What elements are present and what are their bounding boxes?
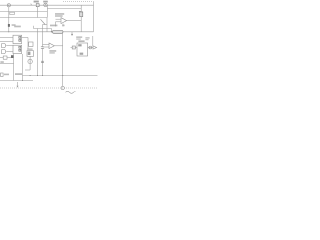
wire x22.5 vertical [22, 54, 24, 81]
op-amp U2 [49, 43, 54, 49]
current source CS1 [28, 59, 32, 63]
wire x28 vertical [27, 38, 29, 50]
label left mid text [14, 26, 21, 28]
comp on left pin [72, 46, 75, 49]
label small left [0, 61, 3, 63]
fuse F1 [36, 4, 39, 7]
wire K1 left [0, 57, 3, 59]
gate G1 [2, 44, 6, 48]
junction rail dots [30, 75, 31, 76]
wire upper mid rail corner [33, 26, 35, 29]
wire mid rail right [47, 8, 81, 10]
box IC1 [13, 35, 22, 43]
dashed bottom line [0, 87, 98, 89]
capacitor C1 plates [41, 46, 44, 48]
wire stub y47 [43, 46, 50, 48]
transistor Q1 diagonal [41, 19, 46, 24]
label above x93 [85, 37, 89, 38]
label below U1 [62, 25, 64, 27]
wire L1 down [62, 33, 64, 86]
wire drop to junction [51, 29, 53, 32]
bottom rail 2 [0, 80, 33, 82]
box B4 [27, 51, 33, 57]
label M1 [43, 1, 48, 3]
source circle V1 [7, 4, 10, 7]
label B4 [27, 48, 32, 50]
IC1 pin square b [19, 39, 21, 41]
node circle right [89, 46, 92, 49]
op-amp U1 [61, 18, 67, 24]
label bottom-left box [1, 73, 4, 76]
wire M1 down [46, 5, 48, 12]
wire mid rail left [0, 11, 47, 13]
wire x37 vertical [37, 29, 39, 76]
squiggle [66, 91, 76, 93]
wire IC1 in1 [0, 37, 13, 39]
wire x93 vertical lower [92, 36, 94, 46]
wire upper mid rail [34, 28, 52, 30]
label bottom-left text [4, 74, 9, 76]
dashed feedback line [63, 1, 94, 3]
wire y63.5 [0, 63, 14, 65]
wire Q1 stub [43, 24, 48, 26]
arrow out [93, 46, 97, 49]
wire G1 out [6, 45, 13, 47]
IC2 pin square b [19, 49, 21, 51]
label above inductor [50, 25, 57, 27]
relay K1 box [3, 56, 7, 59]
junction node [51, 31, 52, 32]
main mid rail [0, 31, 94, 33]
box REG1 [77, 43, 88, 56]
label mid text [15, 73, 22, 75]
label U1 text [55, 13, 64, 15]
IC2 pin square a [19, 46, 21, 48]
wire B4 down [29, 56, 31, 59]
CS1 arrow [29, 60, 31, 63]
IC1 pin square a [19, 36, 21, 38]
label right of rail [76, 36, 82, 38]
wire U1 power down [62, 24, 64, 27]
wire y70 stub [25, 69, 30, 71]
wire K1 to E1 [7, 57, 11, 59]
REG1 inner mark top [78, 44, 81, 46]
wire IC1 out [22, 37, 28, 39]
label F1 [34, 1, 39, 3]
wire U2 out [54, 45, 62, 47]
crystal X1 box [29, 42, 33, 46]
label REG1 [78, 40, 84, 42]
REG1 inner mark bottom [80, 53, 84, 55]
wire x47 vertical [46, 18, 48, 32]
wire R2 top [80, 5, 82, 12]
box B4 inner marks [28, 52, 31, 55]
label U2 [49, 50, 56, 52]
bottom rail 1 [23, 75, 98, 77]
wire IC1 in2 [0, 41, 13, 43]
wire x42 vertical upper [42, 25, 44, 47]
dark comp E1 [11, 55, 14, 58]
wire F1 down [37, 7, 39, 18]
capacitor C2 plates [41, 60, 44, 62]
stub below rail [71, 32, 73, 35]
wire right vertical [93, 2, 95, 32]
pot R2 wiper mark [79, 10, 83, 13]
wire U1 in- [56, 21, 62, 23]
node circle on dashed [61, 86, 64, 89]
label box N1 [10, 12, 15, 14]
inductor L1 capsule [52, 30, 63, 33]
wire G2 out [6, 51, 13, 53]
wire x13.5 vertical [13, 54, 15, 81]
box IC2 [13, 45, 22, 53]
switch S1 tick [30, 4, 33, 6]
pot R2 [80, 12, 83, 17]
node stub dot [71, 34, 73, 35]
wire in- down [55, 22, 57, 27]
wire x42 vertical lower [42, 48, 44, 75]
node V1 center [8, 5, 9, 6]
wire top rail [0, 4, 94, 6]
wire U1 out [67, 20, 82, 22]
wire lower rail [0, 17, 47, 19]
ground arrow [17, 82, 19, 86]
wire REG1 left pin [71, 47, 78, 49]
wire V1 down [8, 7, 10, 32]
wire CS1 down [29, 64, 31, 70]
wire REG1 right pin [88, 47, 93, 49]
label D1 [12, 24, 16, 26]
wire U1 in+ [56, 18, 62, 20]
meter M1 circle [44, 3, 47, 6]
wire R2 bottom [80, 17, 82, 32]
wire stub y44.5 [43, 44, 50, 46]
node M1 center [45, 4, 46, 5]
diode D1 body [8, 24, 10, 27]
gate G2 [2, 50, 6, 54]
